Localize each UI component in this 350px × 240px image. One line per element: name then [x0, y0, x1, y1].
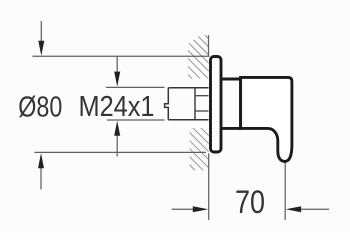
arrow M24 bottom: [116, 133, 118, 157]
dimension line M24 top: [106, 86, 165, 88]
collar line 1: [195, 95, 209, 97]
escutcheon rosette: [211, 57, 222, 153]
wall hatch top: [188, 35, 209, 78]
arrow M24 top: [116, 56, 118, 74]
arrow Ø80 top: [40, 21, 42, 44]
handle lever: [241, 77, 292, 161]
dimension line Ø80 top: [32, 55, 209, 57]
dimension 70 right: [298, 208, 329, 210]
collar line 2: [195, 110, 209, 112]
valve body collar divider: [194, 88, 196, 120]
svg-text:M24x1: M24x1: [79, 91, 155, 123]
extension line right: [284, 163, 286, 221]
svg-text:Ø80: Ø80: [18, 92, 62, 124]
valve sleeve: [220, 78, 241, 81]
dimension line M24 bottom: [107, 119, 165, 121]
wall face line top: [208, 35, 210, 56]
svg-text:70: 70: [235, 184, 265, 220]
arrow Ø80 bottom: [40, 166, 42, 190]
valve body outline: [165, 88, 169, 120]
dimension 70 left: [172, 208, 196, 210]
extension line left: [208, 153, 210, 220]
wall hatch bottom: [190, 128, 209, 170]
dimension line Ø80 bottom: [35, 151, 207, 153]
